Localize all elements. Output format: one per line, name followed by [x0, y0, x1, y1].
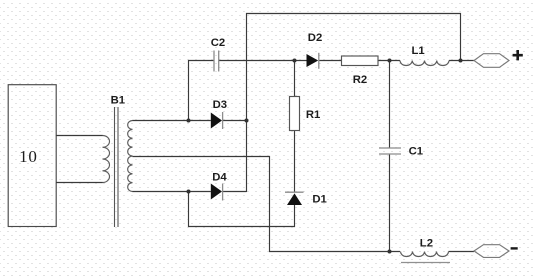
svg-text:D2: D2 — [308, 32, 322, 44]
svg-text:R1: R1 — [306, 109, 320, 121]
wire secondary bottom to D4 — [133, 191, 211, 193]
junction node at 389,61 — [388, 59, 392, 63]
transformer B1 secondary winding — [128, 121, 133, 192]
block 10 — [8, 85, 56, 227]
junction node at 188,191 — [187, 190, 191, 194]
svg-text:L2: L2 — [420, 238, 433, 250]
wire secondary top to D3 — [133, 120, 211, 122]
inductor L2 — [401, 252, 449, 257]
wire box to primary top — [56, 135, 102, 137]
wire C1 bottom — [389, 154, 391, 252]
svg-text:B1: B1 — [111, 94, 125, 106]
junction node at 294,61 — [293, 59, 297, 63]
plus sign — [513, 50, 523, 60]
wire L2 to minus node — [449, 251, 475, 253]
transformer B1 core — [115, 107, 119, 227]
svg-text:D1: D1 — [312, 193, 326, 205]
inductor L2 core bar — [401, 262, 450, 264]
wire center tap net — [133, 157, 401, 252]
junction node at 460,61 — [459, 59, 463, 63]
capacitor C1 plates — [379, 148, 401, 154]
svg-text:R2: R2 — [353, 74, 367, 86]
wire R2 to L1 — [378, 60, 400, 62]
junction node at 389,251 — [388, 250, 392, 254]
resistor R1 — [290, 97, 300, 131]
wire D1 anode loop — [189, 192, 295, 227]
svg-text:C2: C2 — [211, 37, 225, 49]
wire C2 left leg — [189, 61, 214, 121]
minus sign — [511, 247, 518, 249]
junction node at 246,120 — [245, 119, 249, 123]
wire C1 top — [389, 61, 391, 149]
wire R1 drop from node — [294, 61, 296, 97]
transformer B1 primary winding — [103, 136, 110, 183]
resistor R2 — [342, 56, 379, 66]
diode D3 — [211, 112, 223, 129]
wire D3 to node at x246.5 — [223, 120, 247, 122]
diode D4 — [211, 184, 223, 201]
svg-text:D3: D3 — [213, 99, 227, 111]
wire D2 to R2 — [319, 60, 341, 62]
output terminal minus — [474, 245, 509, 258]
svg-text:D4: D4 — [212, 171, 227, 183]
diode D2 — [307, 53, 319, 69]
wire R1 to D1 cathode — [294, 131, 296, 193]
svg-text:10: 10 — [19, 147, 38, 166]
svg-text:C1: C1 — [409, 146, 423, 158]
junction node at 188,120 — [187, 119, 191, 123]
svg-text:L1: L1 — [412, 45, 425, 57]
capacitor C2 plates — [214, 51, 219, 72]
wire D4 to vertical — [223, 191, 247, 193]
top rail — [247, 14, 461, 193]
wire L1 to plus node — [449, 60, 474, 62]
output terminal plus — [474, 54, 509, 68]
wire C2 right to D2 — [219, 60, 307, 62]
inductor L1 — [400, 61, 449, 66]
diode D1 — [285, 192, 304, 205]
wire box to primary bottom — [56, 182, 102, 184]
